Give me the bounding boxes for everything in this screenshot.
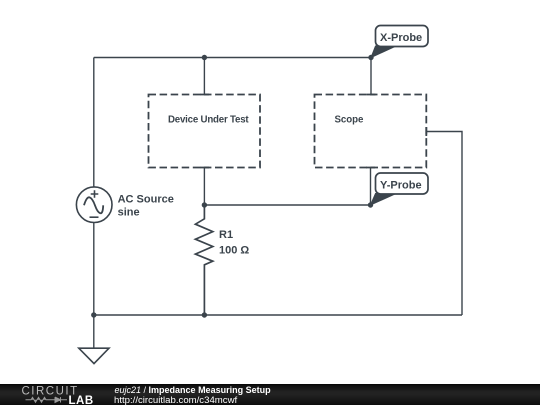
svg-text:sine: sine bbox=[118, 206, 140, 218]
wire: stub from top wire down into Device Under Test top port bbox=[203, 58, 205, 95]
wire: AC source minus terminal down to bottom rail bbox=[93, 222, 95, 315]
label: R1 value 100 ohm bbox=[219, 245, 249, 257]
svg-text:AC Source: AC Source bbox=[118, 193, 174, 205]
junction: bottom rail at ground bbox=[91, 312, 96, 317]
subcircuit box: Device Under Test bbox=[149, 95, 261, 168]
wire: from Scope right port to right rail and down to bottom rail bbox=[426, 132, 462, 316]
flag Y-Probe bbox=[371, 173, 429, 205]
wire: from Device Under Test bottom port down to Y node bbox=[203, 168, 205, 206]
AC voltage source V1 bbox=[76, 187, 112, 223]
wire: from Scope bottom port down to Y-Probe node bbox=[370, 168, 372, 206]
junction: top wire to DUT branch bbox=[202, 55, 207, 60]
footer bar bbox=[0, 384, 540, 405]
svg-text:Y-Probe: Y-Probe bbox=[380, 180, 422, 192]
label: AC Source name bbox=[118, 193, 174, 205]
subcircuit box: Scope bbox=[315, 95, 427, 168]
label: R1 reference designator bbox=[219, 229, 233, 241]
svg-text:Device Under Test: Device Under Test bbox=[168, 114, 249, 125]
wire: horizontal Y node wire from R1 top to Y-Probe node bbox=[204, 204, 370, 206]
resistor R1 bbox=[195, 205, 212, 315]
flag X-Probe bbox=[371, 26, 428, 58]
ground bbox=[79, 348, 109, 363]
svg-text:Scope: Scope bbox=[335, 114, 364, 125]
wire: stub from X-Probe node down into Scope top port bbox=[370, 58, 372, 95]
wire: bottom ground rail bbox=[94, 314, 462, 316]
node Y: Y-Probe attachment junction bbox=[368, 202, 373, 207]
node X: X-Probe attachment junction bbox=[368, 55, 373, 60]
svg-text:X-Probe: X-Probe bbox=[380, 32, 422, 44]
wire: ground stub below bottom rail bbox=[93, 315, 95, 348]
junction: bottom rail at R1 bbox=[202, 312, 207, 317]
logo CIRCUIT LAB bbox=[0, 384, 110, 405]
wire: top horizontal from AC source to X-Probe node bbox=[94, 57, 371, 59]
svg-text:LAB: LAB bbox=[69, 395, 94, 405]
wire: left vertical from top wire down to AC source plus terminal bbox=[93, 58, 95, 188]
svg-text:R1: R1 bbox=[219, 229, 233, 241]
junction: DUT bottom / R1 top node bbox=[202, 202, 207, 207]
svg-text:100 Ω: 100 Ω bbox=[219, 245, 249, 257]
label: AC Source type sine bbox=[118, 206, 140, 218]
